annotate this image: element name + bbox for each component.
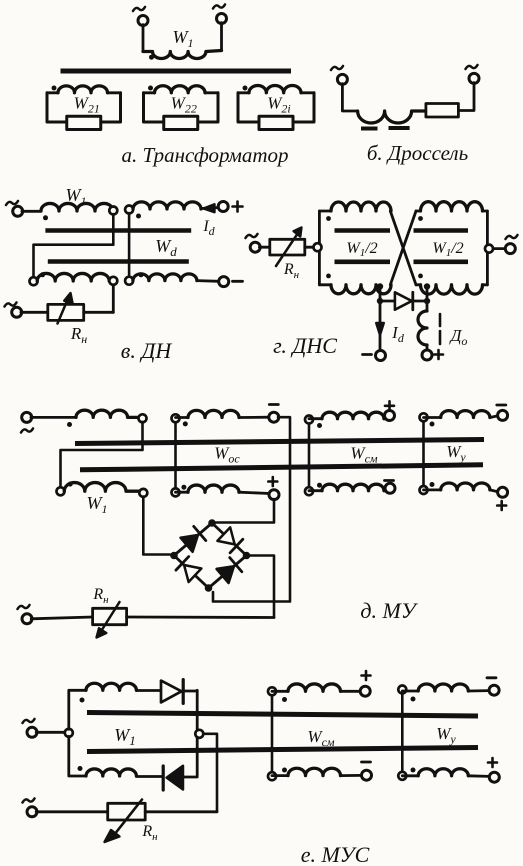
svg-text:в. ДН: в. ДН (121, 338, 173, 363)
svg-text:д. МУ: д. МУ (360, 598, 418, 623)
svg-text:г. ДНС: г. ДНС (273, 333, 337, 358)
svg-text:б. Дроссель: б. Дроссель (367, 141, 468, 165)
svg-text:а. Трансформатор: а. Трансформатор (121, 143, 288, 167)
svg-text:е. МУС: е. МУС (301, 842, 370, 866)
